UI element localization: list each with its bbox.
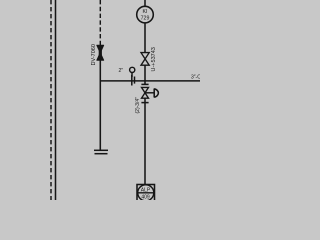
valve DV-7060 (closed, filled) — [97, 45, 104, 60]
vent / end symbol (double bars) — [94, 149, 108, 151]
svg-text:ALP: ALP — [141, 188, 151, 194]
wire: control valve down to DCS box — [144, 98, 146, 184]
svg-text:(2)-3/4″: (2)-3/4″ — [135, 97, 141, 114]
actuator D symbol — [154, 89, 158, 98]
wire: stub to actuator D — [145, 92, 154, 94]
svg-text:KI: KI — [143, 9, 148, 15]
flange tick top of control valve — [141, 83, 148, 85]
orifice plate bars — [131, 75, 133, 86]
flange tick bottom of control valve — [141, 102, 148, 104]
control valve body — [142, 87, 149, 98]
wire: horizontal process line — [100, 80, 200, 82]
svg-text:3″-C: 3″-C — [191, 75, 200, 81]
svg-text:U-+53743: U-+53743 — [151, 47, 157, 71]
DCS instrument box ALP-409 — [137, 185, 155, 202]
wire: circle to valve U-+53743 — [144, 23, 146, 53]
svg-text:729: 729 — [141, 16, 150, 22]
wire: left dashed battery-limit line — [50, 0, 52, 200]
wire: stem from circle to orifice — [131, 72, 133, 77]
wire: vertical line top to instrument circle — [144, 0, 146, 7]
svg-text:2″: 2″ — [119, 68, 124, 74]
valve U-+53743 (gate valve) — [141, 53, 149, 66]
sample point circle — [130, 67, 135, 72]
wire: left solid vertical line — [55, 0, 57, 200]
wire: vertical line below DV-7060 to vent — [99, 60, 101, 150]
wire: dashed vertical line above valve DV-7060 — [99, 0, 101, 46]
svg-text:DV-7060: DV-7060 — [91, 44, 97, 65]
svg-text:409: 409 — [141, 195, 150, 201]
wire: valve to crossing — [144, 65, 146, 84]
instrument bubble KI-729 — [137, 6, 154, 23]
